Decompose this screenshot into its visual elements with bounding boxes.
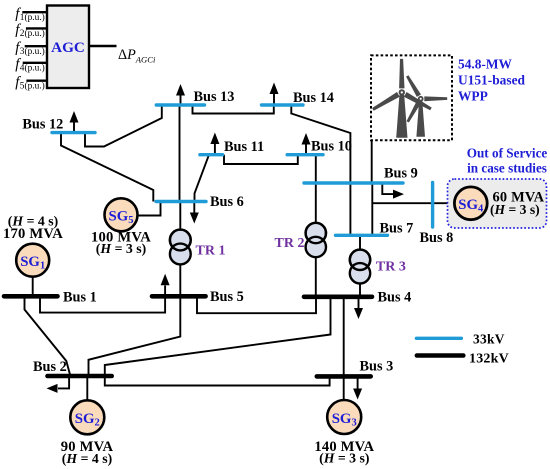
svg-text:(H = 3 s): (H = 3 s)	[490, 202, 540, 218]
wire Bus 10 to TR 2 to Bus 4	[315, 155, 317, 297]
svg-text:Out of Service: Out of Service	[467, 146, 548, 161]
transformer TR 3	[350, 250, 406, 284]
bus Bus 8 (vertical)	[431, 183, 434, 228]
svg-text:Bus 13: Bus 13	[194, 89, 235, 105]
load arrow Bus 11	[210, 133, 219, 155]
out-of-service dotted box	[448, 179, 547, 228]
wire Bus 13 to Bus 14	[193, 105, 274, 114]
svg-text:Bus 1: Bus 1	[63, 289, 97, 305]
svg-text:132kV: 132kV	[469, 351, 509, 366]
output dP_AGCi	[89, 46, 156, 65]
legend 33kV line	[416, 337, 461, 340]
svg-text:U151-based: U151-based	[458, 72, 526, 87]
WPP dotted box	[371, 55, 452, 140]
svg-text:Bus 9: Bus 9	[384, 165, 418, 181]
svg-text:Bus 4: Bus 4	[378, 289, 412, 305]
svg-text:4(p.u.): 4(p.u.)	[20, 63, 45, 74]
svg-text:TR 2: TR 2	[275, 236, 305, 251]
svg-text:(H = 3 s): (H = 3 s)	[319, 451, 369, 467]
generator SG3	[327, 400, 361, 434]
bus Bus 1	[4, 294, 58, 299]
bus Bus 6	[156, 200, 206, 203]
wire SG5 to Bus 6	[138, 202, 161, 216]
transformer TR 2	[275, 223, 326, 257]
wire Bus 14 to Bus 9 and Bus 7	[291, 105, 350, 235]
load arrow Bus 12	[70, 111, 79, 133]
svg-text:3(p.u.): 3(p.u.)	[20, 46, 45, 57]
bus Bus 5	[152, 294, 206, 299]
bus Bus 3	[317, 374, 371, 379]
bus Bus 12	[52, 131, 95, 134]
label 54.8-MW U151-based WPP	[458, 57, 526, 104]
svg-text:(H = 3 s): (H = 3 s)	[96, 241, 146, 257]
wire Bus 5 to Bus 2	[89, 296, 181, 376]
wire Bus 4 to Bus 3 to SG3	[343, 297, 345, 400]
input f3(p.u.)	[15, 40, 47, 57]
wire Bus 9 to Bus 7	[371, 183, 373, 235]
label Out of Service in case studies	[467, 146, 548, 176]
wire Bus 6 to TR 1 to Bus 5	[179, 202, 181, 297]
svg-text:2(p.u.): 2(p.u.)	[20, 28, 45, 39]
svg-text:AGC: AGC	[51, 39, 85, 56]
legend 132kV line	[417, 353, 463, 358]
transformer TR 1	[170, 230, 226, 265]
input f4(p.u.)	[15, 56, 47, 73]
svg-text:1(p.u.): 1(p.u.)	[20, 12, 45, 23]
load arrow Bus 10	[302, 133, 311, 155]
load arrow Bus 3	[353, 376, 362, 399]
svg-text:Bus 11: Bus 11	[224, 139, 264, 155]
wire Bus 5 to Bus 4	[197, 296, 316, 313]
bus Bus 4	[304, 294, 372, 299]
bus Bus 9	[304, 181, 403, 184]
svg-text:Bus 6: Bus 6	[210, 194, 244, 210]
generator SG1	[16, 244, 49, 277]
bus Bus 2	[48, 374, 112, 379]
svg-text:Bus 2: Bus 2	[33, 359, 67, 375]
input f1(p.u.)	[15, 6, 47, 23]
svg-text:in case studies: in case studies	[467, 161, 547, 176]
load arrow Bus 14	[270, 83, 279, 106]
wire Bus 1 to Bus 2	[25, 296, 71, 376]
svg-text:Bus 5: Bus 5	[210, 289, 244, 305]
wire Bus 12 to Bus 13	[85, 105, 162, 147]
input f2(p.u.)	[15, 22, 47, 39]
bus Bus 10	[287, 153, 323, 156]
wire node to SG4	[372, 202, 454, 204]
load arrow Bus 6	[190, 202, 199, 224]
wire Bus 2 to Bus 4	[105, 297, 331, 376]
load arrow Bus 5	[161, 274, 170, 297]
wire Bus 2 to Bus 3	[105, 376, 330, 386]
svg-text:TR 1: TR 1	[196, 244, 226, 259]
svg-text:Bus 8: Bus 8	[420, 230, 454, 246]
svg-text:TR 3: TR 3	[376, 259, 406, 274]
svg-text:54.8-MW: 54.8-MW	[458, 57, 513, 72]
wire Bus 11 to Bus 10	[224, 155, 298, 164]
bus Bus 11	[200, 153, 223, 156]
generator SG4	[454, 187, 487, 220]
wire Bus 11 to Bus 6	[195, 155, 210, 202]
bus Bus 7	[336, 234, 388, 237]
bus Bus 14	[262, 103, 304, 106]
wire Bus 13 to Bus 6	[179, 105, 181, 202]
svg-text:ΔPAGCi: ΔPAGCi	[118, 47, 156, 65]
load arrow Bus 2	[47, 376, 70, 393]
load arrow Bus 4	[354, 297, 363, 319]
load arrow Bus 9	[382, 183, 404, 199]
svg-text:WPP: WPP	[458, 88, 488, 103]
svg-text:Bus 14: Bus 14	[293, 90, 334, 106]
wire Bus 7 to TR 3 to Bus 4	[359, 235, 361, 296]
wire Bus 1 to Bus 5	[40, 296, 165, 312]
svg-text:Bus 7: Bus 7	[380, 220, 414, 236]
svg-text:Bus 3: Bus 3	[360, 358, 394, 374]
svg-text:(H = 4 s): (H = 4 s)	[62, 451, 112, 467]
svg-text:5(p.u.): 5(p.u.)	[20, 80, 45, 91]
input f5(p.u.)	[15, 74, 47, 91]
svg-text:Bus 10: Bus 10	[311, 138, 352, 154]
load arrow Bus 13	[176, 84, 185, 105]
generator SG5	[105, 198, 138, 231]
generator SG2	[70, 400, 104, 434]
AGC block U-AGC	[47, 6, 89, 89]
wire WPP to Bus 9	[371, 140, 373, 183]
wind turbine 2 (small)	[405, 75, 447, 137]
svg-text:33kV: 33kV	[473, 332, 505, 347]
svg-text:Bus 12: Bus 12	[22, 117, 63, 133]
wire SG1 to Bus 1	[32, 277, 34, 297]
wire SG2 to Bus 2	[86, 376, 88, 400]
wire Bus 12 to Bus 6	[61, 133, 153, 202]
svg-text:170 MVA: 170 MVA	[3, 226, 63, 242]
bus Bus 13	[156, 103, 204, 106]
wind turbine 1 (large)	[371, 59, 432, 138]
